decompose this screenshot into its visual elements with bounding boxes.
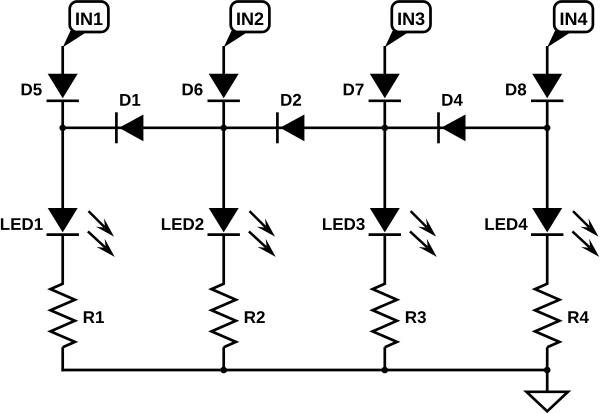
resistor R3 xyxy=(373,284,426,347)
node bottom bus junction col4 xyxy=(544,367,551,374)
diode D1 xyxy=(116,94,143,143)
wire IN2 to D6 anode xyxy=(222,46,225,75)
node upper bus junction col2 xyxy=(220,125,227,132)
wire R3 to bottom bus xyxy=(383,347,386,370)
terminal IN2 xyxy=(224,2,270,48)
LED LED3 xyxy=(323,208,437,257)
wire LED4 cathode to R4 xyxy=(546,235,549,285)
wire upper bus col3-col4 xyxy=(385,126,547,129)
node bottom bus junction col2 xyxy=(220,367,227,374)
wire D6 cathode to LED2 anode xyxy=(222,101,225,209)
node upper bus junction col1 xyxy=(59,125,66,132)
diode D7 xyxy=(344,74,401,101)
wire R2 to bottom bus xyxy=(222,347,225,370)
wire IN3 to D7 anode xyxy=(383,46,386,75)
diode D6 xyxy=(183,74,240,101)
diode D8 xyxy=(506,74,563,101)
wire LED1 cathode to R1 xyxy=(61,235,64,285)
diode D5 xyxy=(22,74,79,101)
diode D2 xyxy=(277,94,304,144)
wire D7 cathode to LED3 anode xyxy=(383,101,386,209)
wire bottom bus col1-col2 xyxy=(61,369,223,372)
resistor R2 xyxy=(212,284,265,347)
LED LED1 xyxy=(1,208,115,257)
terminal IN1 xyxy=(63,2,109,48)
terminal IN4 xyxy=(547,2,593,48)
wire R1 to bottom bus xyxy=(61,347,64,371)
wire LED3 cathode to R3 xyxy=(383,235,386,285)
wire D5 cathode to LED1 anode xyxy=(61,101,64,209)
node upper bus junction col3 xyxy=(382,125,389,132)
resistor R4 xyxy=(535,284,589,347)
wire upper bus col1-col2 xyxy=(63,126,224,129)
ground xyxy=(527,370,568,411)
wire IN1 to D5 anode xyxy=(61,46,64,75)
resistor R1 xyxy=(51,284,105,347)
wire bottom bus col2-col3 xyxy=(224,369,385,372)
wire upper bus col2-col3 xyxy=(224,126,385,129)
wire bottom bus col3-col4 xyxy=(385,369,547,372)
LED LED4 xyxy=(485,208,599,257)
wire D8 cathode to LED4 anode xyxy=(546,101,549,209)
wire IN4 to D8 anode xyxy=(546,46,549,75)
node upper bus junction col4 xyxy=(544,125,551,132)
terminal IN3 xyxy=(385,2,431,48)
wire R4 to bottom bus xyxy=(546,347,549,370)
diode D4 xyxy=(439,94,466,143)
node bottom bus junction col3 xyxy=(382,367,389,374)
wire LED2 cathode to R2 xyxy=(222,235,225,285)
LED LED2 xyxy=(162,208,276,257)
